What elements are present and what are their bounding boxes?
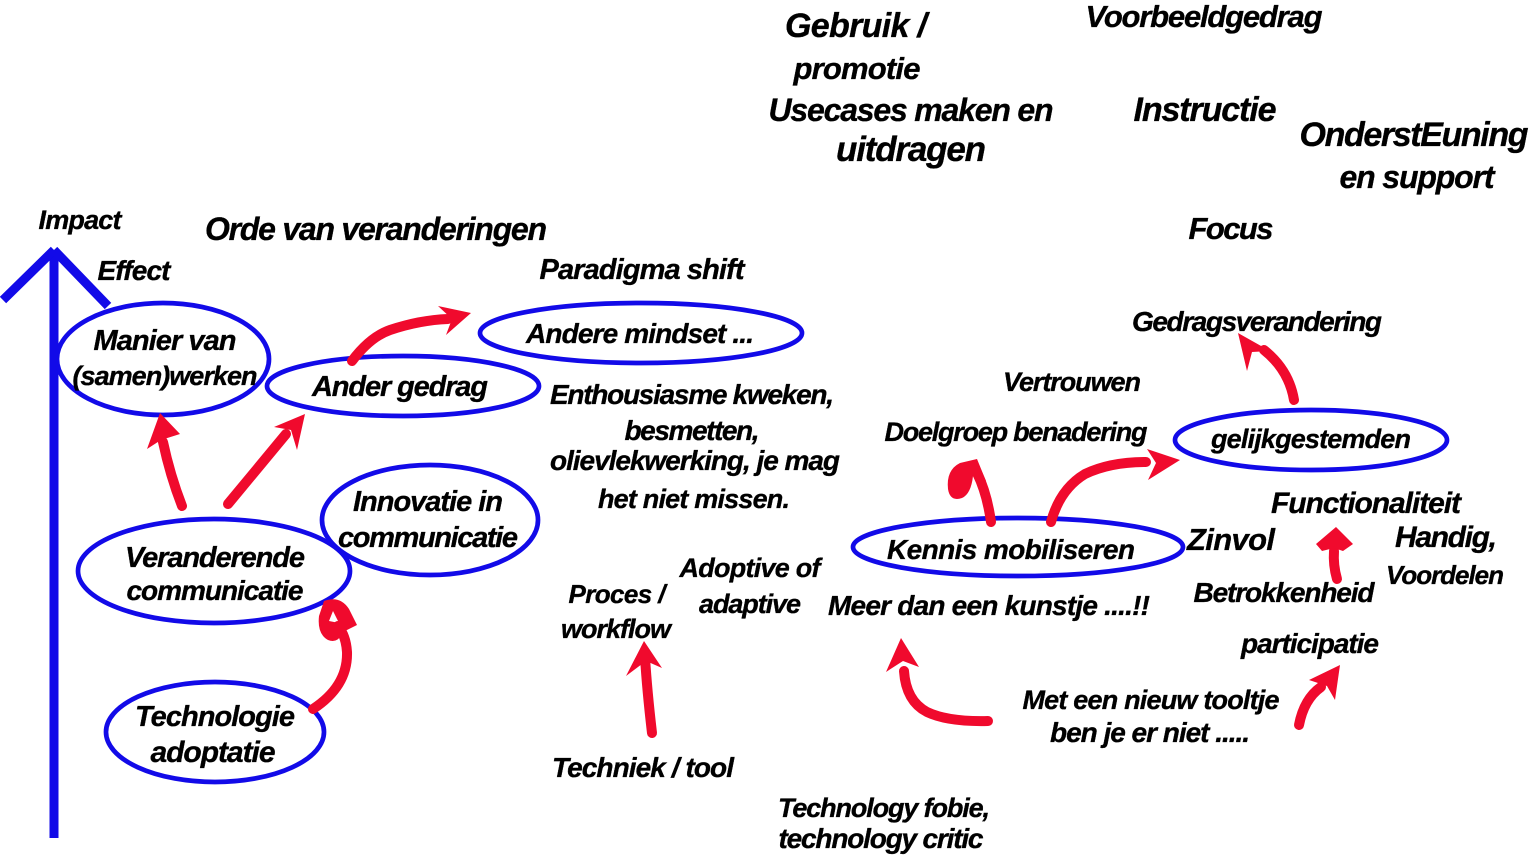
- red arrow Kennis naar gelijkgestemden shaft: [1051, 462, 1146, 522]
- svg-text:Doelgroep benadering: Doelgroep benadering: [885, 417, 1149, 447]
- red arrow Ander gedrag naar Andere mindset shaft: [352, 319, 448, 361]
- red arrow naar participatie head: [1309, 665, 1340, 700]
- svg-text:Gedragsverandering: Gedragsverandering: [1132, 306, 1382, 337]
- svg-text:Vertrouwen: Vertrouwen: [1003, 367, 1141, 397]
- ellipse node Andere mindset ...: [480, 303, 802, 363]
- axis arrow shaft (blue vertical line): [50, 252, 59, 838]
- svg-text:communicatie: communicatie: [127, 575, 304, 606]
- svg-text:Handig,: Handig,: [1395, 521, 1497, 554]
- red arrow Kennis naar gelijkgestemden head: [1147, 449, 1180, 480]
- svg-text:Andere mindset ...: Andere mindset ...: [525, 318, 754, 349]
- svg-text:Voordelen: Voordelen: [1386, 560, 1504, 590]
- red arrow Technologie naar Veranderende shaft: [313, 626, 347, 709]
- svg-text:Gebruik /: Gebruik /: [785, 7, 931, 45]
- svg-text:Focus: Focus: [1189, 211, 1274, 246]
- red arrow tooltje naar kunstje head: [886, 638, 919, 672]
- ellipse node Technologie adoptatie: [106, 682, 324, 782]
- red arrow Ander gedrag naar Andere mindset head: [438, 306, 471, 335]
- svg-text:gelijkgestemden: gelijkgestemden: [1210, 424, 1411, 454]
- axis arrowhead left wing: [3, 250, 54, 300]
- svg-text:Zinvol: Zinvol: [1186, 522, 1276, 557]
- svg-text:communicatie: communicatie: [338, 522, 518, 554]
- svg-text:olievlekwerking, je mag: olievlekwerking, je mag: [550, 445, 840, 476]
- red arrow naar Functionaliteit head: [1316, 527, 1353, 551]
- svg-text:Effect: Effect: [98, 255, 173, 286]
- svg-text:adaptive: adaptive: [699, 589, 801, 619]
- svg-text:Veranderende: Veranderende: [125, 542, 305, 574]
- svg-text:Impact: Impact: [39, 205, 123, 235]
- red arrow naar participatie shaft: [1299, 687, 1321, 725]
- svg-text:workflow: workflow: [561, 614, 673, 644]
- red arrow Technologie naar Veranderende head: [319, 599, 357, 641]
- svg-text:Orde van veranderingen: Orde van veranderingen: [205, 211, 547, 247]
- red arrow gelijkgestemden naar Gedragsverandering head: [1238, 333, 1270, 371]
- red arrow Veranderende naar Manier shaft: [163, 442, 182, 506]
- ellipse node Innovatie in communicatie: [322, 465, 538, 575]
- svg-text:technology critic: technology critic: [779, 823, 984, 854]
- svg-text:promotie: promotie: [793, 51, 921, 86]
- svg-text:het niet missen.: het niet missen.: [598, 484, 790, 514]
- red arrow Techniek naar Proces head: [626, 641, 662, 676]
- svg-text:Enthousiasme kweken,: Enthousiasme kweken,: [550, 379, 834, 410]
- svg-text:Ander gedrag: Ander gedrag: [311, 371, 488, 403]
- svg-text:Met een nieuw tooltje: Met een nieuw tooltje: [1023, 685, 1280, 715]
- ellipse node Kennis mobiliseren: [853, 518, 1183, 576]
- red arrow naar Functionaliteit shaft: [1334, 551, 1337, 579]
- red arrow gelijkgestemden naar Gedragsverandering shaft: [1264, 350, 1294, 400]
- red arrow Techniek naar Proces shaft: [645, 657, 652, 733]
- ellipse node gelijkgestemden: [1175, 410, 1447, 470]
- svg-text:Functionaliteit: Functionaliteit: [1271, 487, 1463, 520]
- red arrow Veranderende naar Ander gedrag head: [274, 414, 305, 450]
- svg-text:Proces /: Proces /: [569, 579, 669, 609]
- svg-text:Adoptive of: Adoptive of: [679, 553, 824, 583]
- svg-text:OnderstEuning: OnderstEuning: [1300, 116, 1529, 154]
- svg-text:(samen)werken: (samen)werken: [73, 361, 258, 391]
- red arrow Veranderende naar Manier head: [147, 413, 180, 449]
- ellipse node Veranderende communicatie: [78, 519, 350, 623]
- ellipse node Ander gedrag: [267, 356, 539, 416]
- svg-text:Innovatie in: Innovatie in: [353, 486, 503, 518]
- red arrow tooltje naar kunstje shaft: [904, 671, 988, 721]
- ellipse node Manier van (samen)werken: [57, 303, 269, 415]
- svg-text:Voorbeeldgedrag: Voorbeeldgedrag: [1086, 0, 1323, 34]
- svg-text:adoptatie: adoptatie: [151, 736, 276, 769]
- svg-text:besmetten,: besmetten,: [625, 415, 760, 446]
- svg-text:uitdragen: uitdragen: [836, 130, 986, 169]
- svg-text:en support: en support: [1340, 159, 1496, 195]
- red arrow Kennis naar Doelgroep head (curled): [948, 459, 986, 499]
- svg-text:Technology fobie,: Technology fobie,: [778, 793, 990, 823]
- svg-text:ben je er niet .....: ben je er niet .....: [1050, 717, 1250, 748]
- svg-text:Manier van: Manier van: [94, 325, 237, 357]
- svg-text:Paradigma shift: Paradigma shift: [540, 254, 746, 286]
- svg-text:participatie: participatie: [1240, 628, 1379, 659]
- svg-text:Instructie: Instructie: [1134, 91, 1277, 129]
- svg-text:Kennis mobiliseren: Kennis mobiliseren: [887, 534, 1135, 565]
- svg-text:Betrokkenheid: Betrokkenheid: [1194, 577, 1376, 608]
- svg-text:Techniek / tool: Techniek / tool: [552, 752, 735, 783]
- axis arrowhead right wing: [54, 250, 108, 306]
- svg-text:Meer dan een kunstje ....!!: Meer dan een kunstje ....!!: [828, 590, 1150, 621]
- svg-text:Technologie: Technologie: [135, 701, 295, 733]
- red arrow Kennis naar Doelgroep shaft: [977, 473, 991, 522]
- red arrow Veranderende naar Ander gedrag shaft: [228, 434, 286, 504]
- svg-text:Usecases maken en: Usecases maken en: [769, 92, 1054, 128]
